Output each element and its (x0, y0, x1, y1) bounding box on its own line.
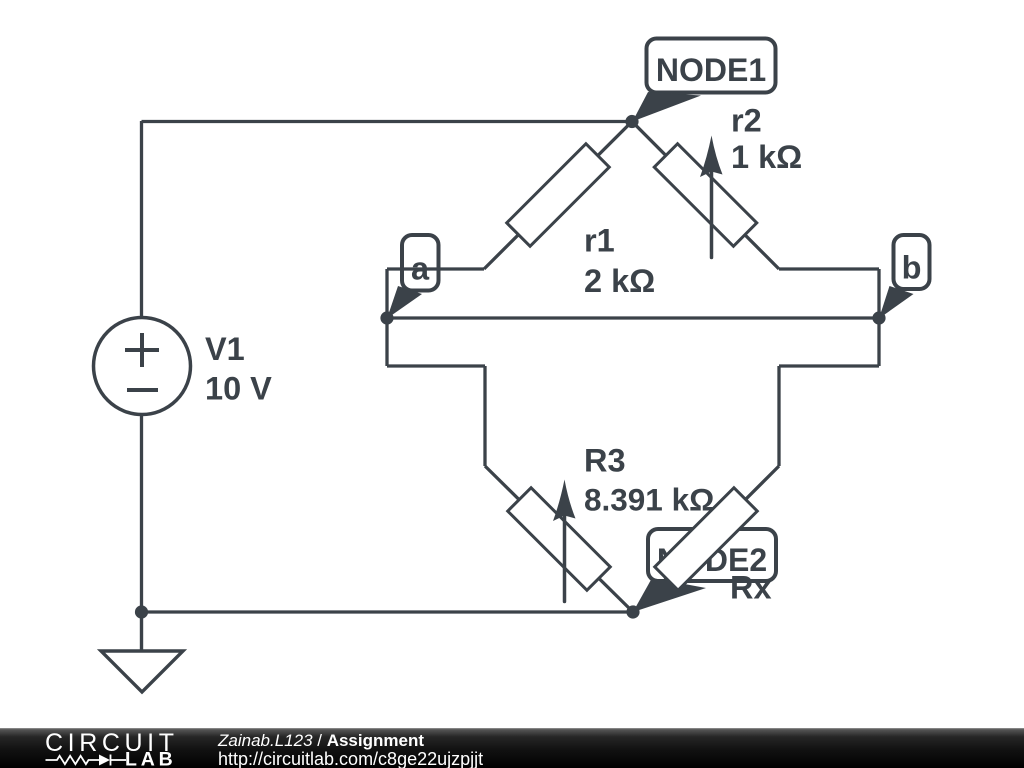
svg-text:r1: r1 (584, 223, 615, 259)
wire diagonal Rx to NODE2 (633, 466, 779, 612)
node label NODE2 (633, 529, 776, 612)
node NODE2 junction dot (626, 605, 639, 618)
svg-text:a: a (411, 251, 430, 287)
wire V1 minus terminal down to ground junction (140, 415, 143, 612)
svg-text:b: b (902, 250, 922, 286)
wire horizontal right top bridge (779, 267, 879, 270)
voltage source V1 10 V (94, 318, 273, 415)
node label a (387, 235, 439, 319)
wire left vertical from top corner to V1 plus terminal (140, 121, 143, 317)
node b junction dot (872, 311, 885, 324)
wire diagonal R3 to NODE2 (485, 466, 633, 612)
node ground junction dot (135, 605, 148, 618)
node label NODE1 (633, 39, 776, 122)
wire horizontal left bottom bridge (387, 364, 485, 367)
footer text (218, 731, 483, 768)
node label b (879, 235, 930, 319)
wire diagonal NODE1 to r2 (632, 122, 779, 270)
svg-text:8.391 kΩ: 8.391 kΩ (584, 482, 714, 518)
svg-text:1 kΩ: 1 kΩ (731, 139, 802, 175)
svg-text:2 kΩ: 2 kΩ (584, 263, 655, 299)
wire node a to node b (387, 316, 879, 319)
svg-text:V1: V1 (205, 331, 245, 367)
wire bottom horizontal from ground junction to NODE2 (142, 610, 634, 613)
node NODE1 junction dot (625, 115, 638, 128)
footer bar (0, 728, 1024, 768)
resistor R3 8.391 kOhm (variable) (508, 443, 715, 602)
ground (101, 612, 183, 692)
resistor Rx (655, 488, 772, 606)
wire vertical through node b (877, 269, 880, 366)
svg-text:R3: R3 (584, 443, 626, 479)
svg-text:10 V: 10 V (205, 371, 272, 407)
resistor r2 1 kOhm (variable) (654, 103, 802, 258)
wire horizontal right bottom bridge (779, 364, 879, 367)
node a junction dot (380, 311, 393, 324)
wire vertical through node a (385, 269, 388, 366)
wire horizontal left top bridge (387, 267, 484, 270)
svg-text:NODE1: NODE1 (656, 52, 766, 88)
svg-text:LAB: LAB (125, 749, 176, 768)
resistor r1 2 kOhm (507, 144, 656, 299)
svg-text:r2: r2 (731, 103, 762, 139)
wire vertical right bottom bridge (777, 366, 780, 466)
svg-text:Rx: Rx (730, 570, 772, 606)
wire diagonal NODE1 to r1 (484, 122, 632, 270)
wire vertical left bottom bridge (483, 366, 486, 466)
wire top horizontal from V1 to NODE1 (142, 120, 633, 123)
CircuitLab logo (44, 729, 244, 768)
